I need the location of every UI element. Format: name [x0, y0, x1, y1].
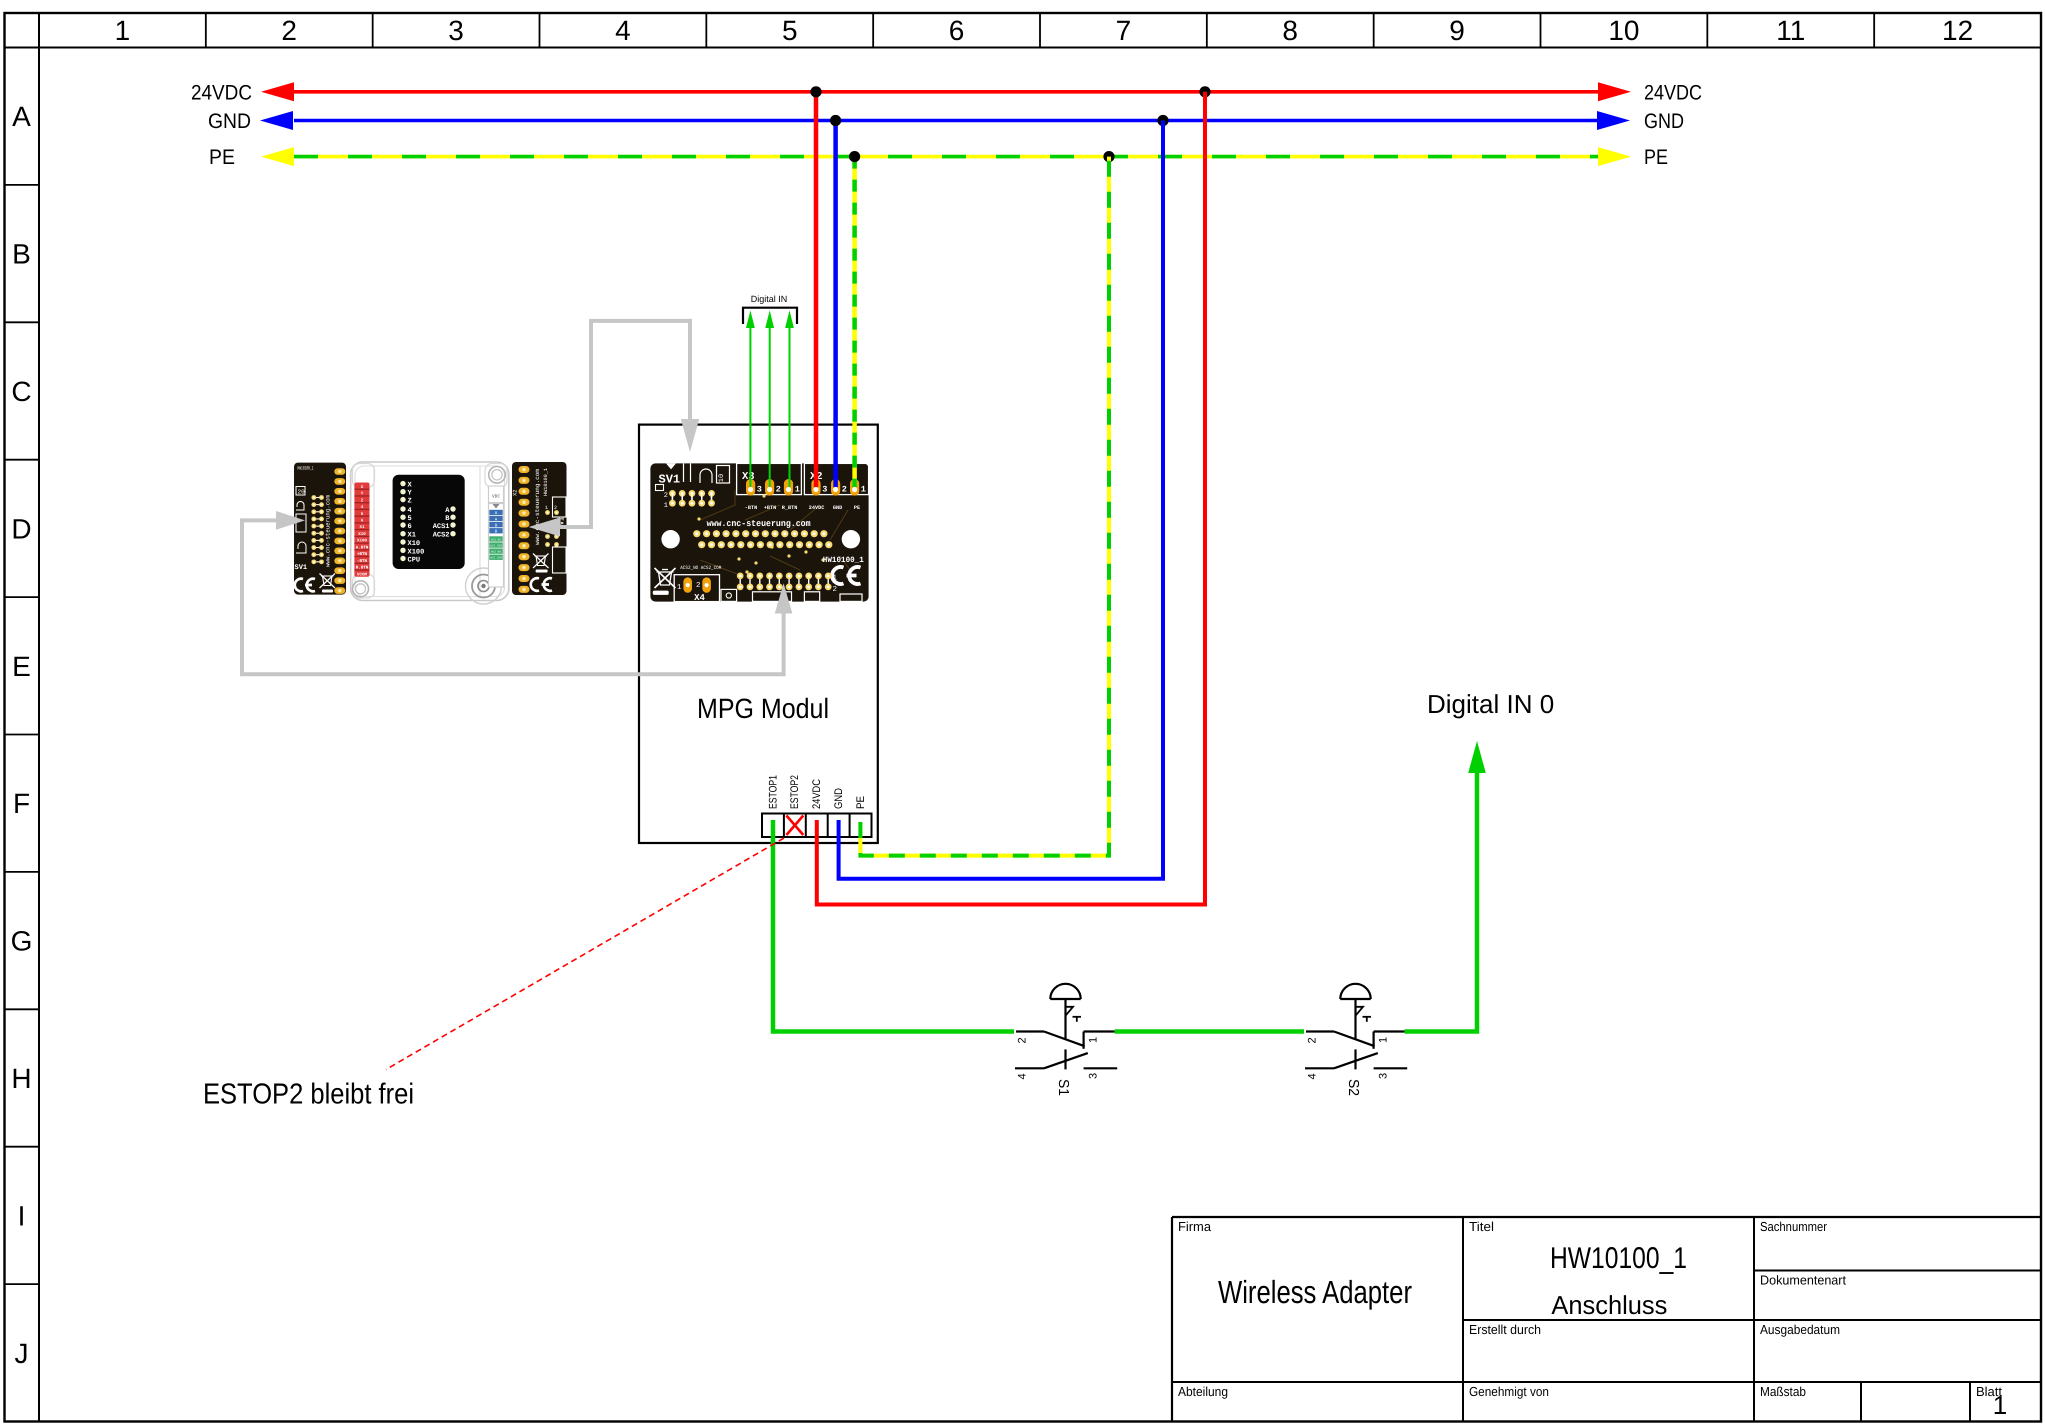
svg-text:X2: X2 — [512, 489, 519, 496]
svg-text:2: 2 — [833, 585, 838, 594]
svg-text:Firma: Firma — [1178, 1219, 1212, 1234]
MPG Modul box — [639, 425, 878, 843]
ESTOP2 blocked cross — [786, 816, 803, 836]
switch S2 pin number 4 — [1307, 1073, 1319, 1079]
wire PE return — [860, 157, 1109, 856]
wire 24VDC rail — [261, 82, 1631, 101]
PCB WEEE symbol — [655, 568, 676, 588]
wire PE rail — [261, 147, 1631, 166]
svg-text:X100: X100 — [408, 548, 425, 556]
title block Titel value — [1550, 1242, 1687, 1320]
svg-text:MPG Modul: MPG Modul — [697, 693, 829, 724]
gray pointer wire upper — [529, 321, 700, 537]
PCB silk ACS2 labels — [680, 565, 721, 571]
switch S1 NC contact pins 2-1 — [1016, 1032, 1115, 1049]
svg-text:24VDC: 24VDC — [809, 505, 825, 511]
PCB X2 pads 3 2 1 — [811, 479, 866, 496]
node PE junction 2 — [1103, 151, 1114, 162]
svg-text:B: B — [12, 239, 31, 270]
svg-text:PE: PE — [855, 796, 867, 809]
svg-text:Wireless Adapter: Wireless Adapter — [1218, 1274, 1412, 1310]
svg-text:Genehmigt von: Genehmigt von — [1469, 1384, 1549, 1399]
switch S2 NC contact pins 2-1 — [1306, 1032, 1405, 1049]
svg-text:ACS2_NO ACS2_COM: ACS2_NO ACS2_COM — [680, 565, 721, 571]
PCB middle pad rows — [693, 494, 832, 573]
pin labels ESTOP1 ESTOP2 24VDC GND PE — [767, 775, 867, 809]
node 24VDC junction 1 — [810, 86, 821, 97]
wireless adapter left PCB strip — [294, 463, 346, 595]
switch S1 contact pins 4-3 — [1015, 1053, 1117, 1068]
svg-text:24VDC: 24VDC — [811, 779, 823, 809]
svg-text:Sachnummer: Sachnummer — [1760, 1219, 1828, 1234]
svg-text:J: J — [15, 1338, 29, 1369]
svg-text:1: 1 — [115, 15, 131, 46]
svg-text:GND: GND — [833, 788, 845, 809]
switch S1 pin number 1 — [1088, 1037, 1100, 1043]
title block Blatt value — [1993, 1390, 2007, 1420]
svg-text:ESTOP1: ESTOP1 — [767, 775, 779, 809]
svg-text:PE: PE — [1644, 146, 1668, 169]
svg-text:24VDC: 24VDC — [191, 81, 252, 104]
handwheel side connector column — [489, 486, 504, 587]
svg-text:12: 12 — [1942, 15, 1973, 46]
svg-text:D: D — [11, 513, 31, 544]
gray pointer wire lower — [242, 511, 792, 674]
PCB SV1 pad grid — [664, 490, 715, 510]
svg-text:1: 1 — [1378, 1037, 1390, 1043]
svg-text:24VDC: 24VDC — [1644, 81, 1702, 104]
svg-text:2: 2 — [554, 505, 557, 511]
title block outline — [1172, 1217, 2041, 1422]
wireless adapter right PCB strip — [512, 462, 567, 595]
svg-text:3: 3 — [1378, 1073, 1390, 1079]
svg-text:ESTOP2: ESTOP2 — [789, 775, 801, 809]
PCB CE mark — [832, 567, 860, 584]
switch S2 contact pins 4-3 — [1305, 1053, 1407, 1068]
svg-text:1: 1 — [861, 485, 866, 495]
Digital IN bracket — [743, 308, 797, 324]
label 24VDC right — [1644, 81, 1702, 104]
svg-text:Digital IN 0: Digital IN 0 — [1427, 689, 1554, 719]
switch label S2 — [1345, 1079, 1361, 1096]
switch S2 stem and actuator — [1356, 999, 1372, 1069]
svg-text:9: 9 — [1449, 15, 1465, 46]
PCB polarity bar — [653, 591, 669, 595]
svg-text:Dokumentenart: Dokumentenart — [1760, 1273, 1846, 1288]
svg-text:www.cnc-steuerung.com: www.cnc-steuerung.com — [534, 469, 541, 545]
svg-text:ACS2: ACS2 — [433, 532, 450, 540]
svg-text:1: 1 — [1993, 1390, 2007, 1420]
svg-text:2: 2 — [1017, 1037, 1029, 1043]
wire Digital IN arrow 1 — [785, 310, 794, 487]
svg-text:1: 1 — [677, 584, 682, 592]
frame header band line — [5, 47, 2042, 49]
svg-text:-BTN: -BTN — [745, 505, 757, 511]
svg-text:F: F — [13, 788, 30, 819]
pad holes X3 X2 — [748, 487, 857, 492]
svg-text:A: A — [12, 101, 31, 132]
PCB connector X2 outline — [804, 463, 868, 494]
switch S2 pin number 3 — [1378, 1073, 1390, 1079]
svg-text:8: 8 — [1282, 15, 1298, 46]
label MPG Modul — [697, 693, 829, 724]
svg-text:ACS COM: ACS COM — [490, 557, 502, 560]
switch S1 stem and actuator — [1066, 999, 1082, 1069]
wire S2 to Digital IN 0 — [1405, 741, 1486, 1032]
node 24VDC junction 2 — [1199, 86, 1210, 97]
label ESTOP2 bleibt frei — [203, 1079, 414, 1111]
title block field labels — [1178, 1219, 2002, 1399]
svg-text:6: 6 — [408, 523, 412, 531]
MPG bottom terminal block — [762, 814, 872, 838]
PCB bottom pad rows — [737, 573, 838, 595]
wire S1 to S2 — [1115, 1029, 1304, 1034]
label PE right — [1644, 146, 1668, 169]
PCB bottom connector outlines — [721, 589, 862, 601]
svg-text:4: 4 — [1307, 1073, 1319, 1079]
svg-text:4: 4 — [615, 15, 631, 46]
svg-text:GND: GND — [208, 110, 251, 133]
svg-text:10: 10 — [1608, 15, 1639, 46]
svg-text:VCOM: VCOM — [357, 572, 368, 577]
svg-text:5: 5 — [782, 15, 798, 46]
svg-text:2: 2 — [776, 485, 781, 495]
svg-text:4: 4 — [1017, 1073, 1029, 1079]
PCB mounting holes — [661, 530, 860, 548]
label 24VDC left — [191, 81, 252, 104]
label PE left — [209, 146, 235, 169]
node GND junction 2 — [1157, 115, 1168, 126]
svg-text:1: 1 — [795, 485, 800, 495]
wire GND drop to X2.2 — [833, 121, 838, 488]
svg-text:11: 11 — [1776, 15, 1805, 46]
svg-text:20: 20 — [298, 488, 306, 495]
wire Digital IN arrow 3 — [746, 310, 755, 487]
svg-text:X10: X10 — [408, 540, 421, 548]
label GND right — [1644, 110, 1684, 133]
svg-text:2: 2 — [696, 581, 701, 590]
MPG module PCB board — [650, 463, 868, 601]
wire Digital IN arrow 2 — [765, 310, 774, 487]
svg-text:1: 1 — [545, 505, 548, 511]
switch S1 pin number 3 — [1088, 1073, 1100, 1079]
svg-text:Titel: Titel — [1469, 1219, 1494, 1234]
svg-text:Erstellt durch: Erstellt durch — [1469, 1322, 1541, 1337]
switch S2 pin number 2 — [1307, 1037, 1319, 1043]
handwheel red axis strip — [354, 483, 369, 578]
ESTOP2 callout dashed line — [386, 838, 784, 1070]
label Digital IN top — [751, 294, 788, 304]
svg-text:H: H — [11, 1063, 31, 1094]
svg-text:GND: GND — [833, 505, 842, 511]
svg-text:S1: S1 — [1055, 1079, 1071, 1096]
node GND junction 1 — [830, 115, 841, 126]
switch S2 pin number 1 — [1378, 1037, 1390, 1043]
svg-text:5: 5 — [408, 515, 412, 523]
svg-text:Z: Z — [408, 498, 412, 506]
svg-text:S2: S2 — [1345, 1079, 1361, 1096]
svg-text:HW10100_1: HW10100_1 — [823, 556, 864, 565]
row ticks and letters A-J — [5, 101, 40, 1369]
svg-text:E: E — [12, 651, 31, 682]
wire 24VDC drop to X2.3 — [814, 92, 819, 488]
svg-text:2: 2 — [281, 15, 297, 46]
svg-text:1: 1 — [833, 575, 838, 583]
PCB connector X4 — [674, 575, 719, 603]
svg-text:HW10100_1: HW10100_1 — [298, 466, 314, 472]
switch label S1 — [1055, 1079, 1071, 1096]
svg-text:GND: GND — [1644, 110, 1684, 133]
svg-text:I: I — [18, 1200, 26, 1231]
handwheel black display panel — [393, 475, 465, 569]
svg-text:PE: PE — [209, 146, 235, 169]
svg-text:X1: X1 — [408, 532, 416, 540]
svg-text:7: 7 — [1116, 15, 1132, 46]
PCB connector X3 outline — [737, 463, 802, 494]
svg-text:Abteilung: Abteilung — [1178, 1384, 1228, 1399]
svg-text:ACS NO: ACS NO — [491, 538, 501, 541]
PCB X3 pads 3 2 1 — [746, 479, 800, 496]
PCB silk www.cnc-steuerung.com — [707, 519, 812, 529]
svg-text:ACS NO: ACS NO — [491, 551, 501, 554]
wire 24VDC return — [817, 92, 1205, 905]
svg-text:Anschluss: Anschluss — [1551, 1290, 1667, 1320]
svg-text:Ausgabedatum: Ausgabedatum — [1760, 1322, 1840, 1337]
svg-text:3: 3 — [1088, 1073, 1100, 1079]
svg-text:X4: X4 — [694, 593, 705, 603]
svg-text:R_BTN: R_BTN — [782, 505, 798, 511]
svg-text:2: 2 — [842, 485, 847, 495]
svg-text:PE: PE — [854, 505, 860, 511]
column ticks and numbers 1-12 — [115, 13, 1974, 48]
svg-text:C: C — [11, 376, 31, 407]
svg-text:www.cnc-steuerung.com: www.cnc-steuerung.com — [325, 495, 332, 567]
svg-text:6: 6 — [949, 15, 965, 46]
wireless adapter handwheel device — [351, 462, 509, 604]
svg-text:3: 3 — [822, 485, 827, 495]
svg-text:1: 1 — [664, 502, 668, 510]
label GND left — [208, 110, 251, 133]
svg-text:ESTOP2 bleibt frei: ESTOP2 bleibt frei — [203, 1079, 414, 1111]
svg-text:+BTN: +BTN — [764, 505, 776, 511]
svg-text:Maßstab: Maßstab — [1760, 1384, 1806, 1399]
svg-text:2: 2 — [1307, 1037, 1319, 1043]
node PE junction 1 — [849, 151, 860, 162]
switch S1 pin number 4 — [1017, 1073, 1029, 1079]
switch S2 mushroom head — [1340, 984, 1370, 999]
svg-text:www.cnc-steuerung.com: www.cnc-steuerung.com — [707, 519, 812, 529]
wire PE drop to X2.1 — [852, 157, 857, 488]
svg-text:4: 4 — [408, 507, 412, 515]
switch S1 pin number 2 — [1017, 1037, 1029, 1043]
svg-text:ACS1: ACS1 — [433, 523, 450, 531]
svg-text:SV1: SV1 — [295, 564, 308, 572]
wire GND rail — [260, 111, 1630, 130]
svg-text:HW10100_1: HW10100_1 — [543, 468, 549, 496]
svg-text:G: G — [11, 926, 33, 957]
PCB pin function labels — [745, 505, 860, 511]
title block Firma value — [1218, 1274, 1412, 1310]
svg-text:Digital IN: Digital IN — [751, 294, 788, 304]
wire GND return — [839, 121, 1163, 879]
svg-text:3: 3 — [448, 15, 464, 46]
svg-text:VDC: VDC — [492, 494, 500, 500]
svg-text:HW10100_1: HW10100_1 — [1550, 1242, 1687, 1275]
frame row-label column line — [38, 13, 40, 1422]
svg-text:1: 1 — [1088, 1037, 1100, 1043]
wire ESTOP1 to S1 — [773, 820, 1014, 1032]
PCB silk HW10100_1 — [823, 556, 864, 565]
svg-text:CPU: CPU — [408, 557, 421, 565]
svg-text:2: 2 — [664, 492, 668, 500]
label Digital IN 0 — [1427, 689, 1554, 719]
svg-text:ACS COM: ACS COM — [490, 545, 502, 548]
PCB silk SV1 connector outline — [656, 463, 730, 490]
svg-text:3: 3 — [757, 485, 762, 495]
svg-text:10: 10 — [718, 474, 726, 482]
switch S1 mushroom head — [1050, 984, 1080, 999]
